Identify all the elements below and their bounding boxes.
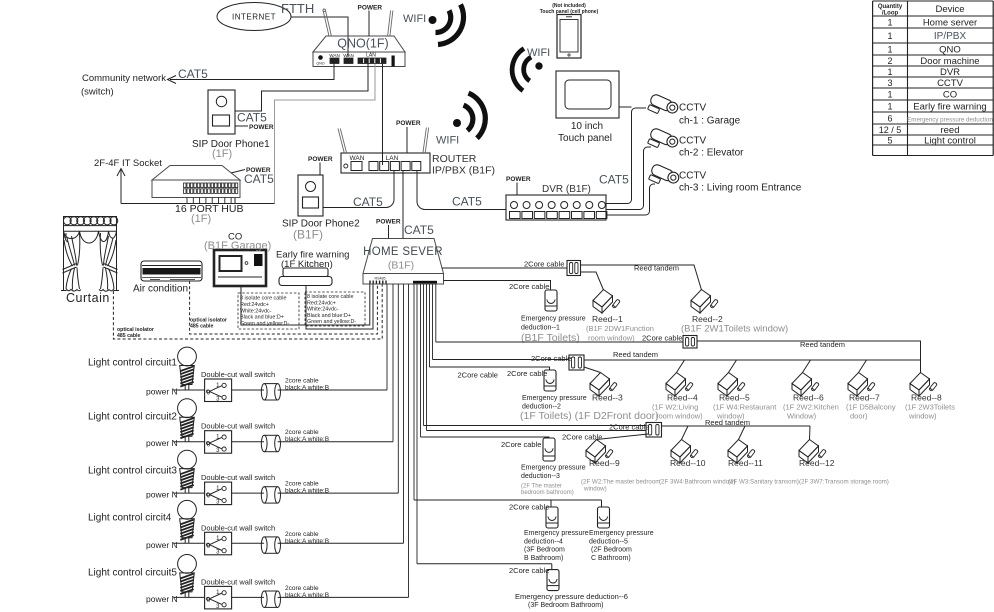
svg-text:Touch panel: Touch panel [558,133,612,144]
svg-text:2Core cable: 2Core cable [524,260,564,269]
wifi icon router [444,91,497,144]
router IP/PBX (B1F) [341,153,430,173]
svg-text:1: 1 [887,101,892,111]
wire curtain to home server (dashed 485) [113,284,382,339]
reed Reed-5 [718,373,745,397]
svg-text:WAN: WAN [350,155,365,162]
svg-text:2Core cable: 2Core cable [501,440,541,449]
wire power DVR [516,183,518,196]
svg-text:1: 1 [887,67,892,77]
svg-text:Green and yellow:D-: Green and yellow:D- [307,319,356,325]
svg-text:485 cable: 485 cable [190,324,213,330]
wire reed tandem row B upper [697,341,921,360]
wire connector A to Reed-1 [581,272,604,290]
svg-text:6: 6 [887,113,892,123]
svg-text:IP/PBX: IP/PBX [934,31,967,42]
lamp L5 [178,555,197,574]
svg-text:IP/PBX (B1F): IP/PBX (B1F) [432,165,495,177]
lamp L4 [178,500,197,519]
svg-text:INTERNET: INTERNET [232,13,276,22]
wire power phone1 [235,125,248,127]
wire power to switch (circuit 1) [174,389,205,391]
svg-text:Light control circit4: Light control circit4 [88,513,172,524]
wire IT socket arrow [120,170,122,204]
svg-text:ch-1 : Garage: ch-1 : Garage [679,116,741,127]
svg-text:POWER: POWER [506,176,531,183]
wire server to EPD-6 [417,563,552,565]
svg-text:Reed tandem: Reed tandem [800,340,845,349]
svg-text:5: 5 [887,135,892,145]
svg-text:Reed--12: Reed--12 [799,458,835,468]
hub port wires [186,198,188,204]
svg-text:CCTV: CCTV [679,136,707,147]
SIP Door Phone1 [208,90,235,134]
svg-text:Light control circuit3: Light control circuit3 [88,466,177,477]
svg-text:WAN: WAN [343,53,354,58]
svg-text:Red:24vdc+: Red:24vdc+ [240,302,269,308]
reed Reed-3 [590,373,617,397]
svg-text:Reed--6: Reed--6 [793,393,824,403]
svg-text:Door machine: Door machine [920,56,979,67]
wifi icon QNO [429,5,464,45]
svg-text:Reed--10: Reed--10 [670,458,706,468]
svg-text:(2F W2:The master bedroom: (2F W2:The master bedroom [581,479,660,486]
camera ch-2 [647,127,680,154]
server bus columns [386,284,388,390]
note 8 isolate core cable (fire) [305,292,365,326]
svg-text:B Bathroom): B Bathroom) [524,555,563,562]
wire connector B2 to Reed-3 [584,367,601,373]
svg-text:Emergency pressure: Emergency pressure [521,465,586,472]
lamp L3 [178,450,197,469]
svg-text:Emergency pressure deduction: Emergency pressure deduction [907,116,993,123]
router antenna right [423,128,427,154]
wire drop Reed-10 [682,426,689,440]
svg-text:Curtain: Curtain [66,291,110,305]
svg-text:WIFI: WIFI [403,13,426,25]
switch SW1 [205,379,232,402]
svg-text:Reed--8: Reed--8 [911,393,942,403]
svg-text:Reed tandem: Reed tandem [613,350,658,359]
svg-text:485 cable: 485 cable [117,333,140,339]
wire power to switch (circuit 4) [174,542,205,544]
svg-text:(2F 3W4:Bathroom window): (2F 3W4:Bathroom window) [659,479,736,486]
cable coil (circuit 5) [264,590,277,592]
svg-text:1: 1 [887,17,892,27]
svg-text:WIFI: WIFI [527,47,550,59]
wire CAT5 phone2 to router [323,170,394,208]
svg-text:RS485: RS485 [375,277,386,281]
wire server to connector B [436,341,683,343]
wire server to EPD-1 [444,281,551,291]
svg-text:WIFI: WIFI [436,135,459,147]
svg-text:White:24vdc-: White:24vdc- [240,308,272,314]
device quantity table [873,1,994,156]
QNO antenna right [388,11,391,37]
svg-text:deduction--1: deduction--1 [521,325,560,332]
wire power server [388,225,390,239]
svg-text:deduction--3: deduction--3 [521,473,560,480]
connector C [646,423,662,438]
wire DVR to camera ch-1 and touch panel [606,108,646,204]
svg-text:Emergency pressure: Emergency pressure [522,395,587,402]
svg-text:2Core cable: 2Core cable [531,354,571,363]
svg-text:Light control circuit2: Light control circuit2 [88,412,177,423]
wire drop Reed-11 [739,426,746,440]
svg-text:C Bathroom): C Bathroom) [591,555,631,562]
lamp L1 [178,347,197,366]
svg-text:Window): Window) [787,412,817,421]
wire switch to cable coil (circuit 4) [232,542,264,544]
svg-text:ch-3 : Living room Entrance: ch-3 : Living room Entrance [679,183,802,194]
svg-text:2core cable: 2core cable [285,429,319,436]
svg-text:LAN: LAN [386,155,399,162]
reed Reed-2 [691,290,718,314]
wire switch to cable coil (circuit 5) [232,596,264,598]
svg-text:Black and blue:D+: Black and blue:D+ [240,315,284,321]
svg-text:Black and blue:D+: Black and blue:D+ [307,313,351,319]
wire DVR to camera ch-2 [606,147,651,210]
svg-text:POWER: POWER [308,156,333,163]
cable coil (circuit 3) [264,486,277,488]
wire drop Reed-12 [809,426,812,440]
QNO antenna left [323,11,329,36]
wire switch to cable coil (circuit 3) [232,492,264,494]
svg-text:CAT5: CAT5 [599,173,629,187]
svg-text:(1F W2:Living: (1F W2:Living [652,403,698,412]
svg-text:(B1F): (B1F) [388,260,414,272]
svg-text:window): window) [908,412,937,421]
internet cloud [217,3,291,31]
reed Reed-11 [728,440,755,464]
reed Reed-9 [586,440,613,464]
wifi icon phone [503,44,549,92]
wire CAT5 QNO WAN to community network with arrow [170,64,334,80]
svg-text:(2F W3:Sanitary transom): (2F W3:Sanitary transom) [728,479,799,486]
CO detector (B1F Garage) [214,250,266,286]
svg-text:Light control circuit1: Light control circuit1 [88,358,177,369]
svg-text:8 isolate core cable: 8 isolate core cable [307,294,353,300]
EPD-6 device [547,570,559,591]
svg-text:Emergency pressure: Emergency pressure [589,530,654,537]
switch SW2 [205,431,232,454]
wire server to EPD-3 [421,437,550,438]
svg-text:2Core cable: 2Core cable [507,369,547,378]
svg-text:(1F Toilets) (1F D2Front door): (1F Toilets) (1F D2Front door) [520,410,659,422]
cable coil (circuit 4) [264,536,277,538]
svg-text:ROUTER: ROUTER [432,153,477,165]
wire coil to server bus (circuit 4) [278,542,404,544]
svg-text:QNO: QNO [939,44,961,55]
svg-text:Green and yellow:D-: Green and yellow:D- [240,321,289,327]
router QNO(1F) [313,36,405,52]
wire reed tandem row B lower [584,359,921,361]
wire FTTH internet to QNO WAN2 [291,17,348,57]
svg-text:CAT5: CAT5 [353,195,383,209]
svg-text:Reed--11: Reed--11 [728,458,763,468]
reed Reed-4 [666,373,693,397]
svg-text:Quantity: Quantity [878,4,903,10]
svg-text:Reed--5: Reed--5 [719,393,750,403]
wire hub bottom bus [121,203,275,205]
air conditioner [141,261,202,281]
wire drop Reed-6 [803,360,811,373]
DVR (B1F) [506,195,606,220]
EPD-3 device [543,438,555,461]
svg-text:CCTV: CCTV [679,103,707,114]
svg-text:CCTV: CCTV [937,78,964,89]
wire power QNO [368,11,370,37]
svg-text:DVR (B1F): DVR (B1F) [542,184,591,195]
svg-text:(switch): (switch) [81,87,114,98]
wire drop Reed-5 [729,360,737,373]
wire reed tandem row A to Reed-2 [581,265,702,290]
wire drop Reed-7 [859,360,867,373]
svg-text:Light control: Light control [924,135,976,146]
svg-text:1: 1 [887,44,892,54]
svg-text:White:24vdc-: White:24vdc- [307,307,339,313]
svg-text:reed: reed [940,125,959,136]
wire power to switch (circuit 3) [174,492,205,494]
EPD-5 device [598,507,610,528]
svg-text:2Core cable: 2Core cable [509,566,549,575]
svg-text:8 isolate core cable: 8 isolate core cable [240,296,286,302]
EPD-2 device [544,370,556,391]
switch SW3 [205,482,232,505]
svg-text:CAT5: CAT5 [237,111,267,125]
svg-text:room window): room window) [588,334,635,343]
svg-text:ch-2 : Elevator: ch-2 : Elevator [679,148,744,159]
svg-text:DVR: DVR [940,67,960,78]
svg-text:Reed--4: Reed--4 [667,393,698,403]
connector B [683,336,697,349]
svg-text:Reed tandem: Reed tandem [705,418,750,427]
svg-text:Light control circuit5: Light control circuit5 [88,568,177,579]
svg-text:(1F D5Balcony: (1F D5Balcony [846,403,896,412]
svg-text:(1F Kitchen): (1F Kitchen) [281,259,333,270]
router antenna left [338,129,344,154]
svg-text:power N: power N [146,540,178,550]
svg-text:(1F 2W3Toilets: (1F 2W3Toilets [905,403,955,412]
svg-text:/Loop: /Loop [882,11,899,17]
svg-text:power N: power N [146,594,178,604]
svg-text:2Core cable: 2Core cable [458,371,498,380]
wire QNO LAN to router LAN [382,64,384,166]
SIP Door Phone2 [298,175,323,216]
switch SW5 [205,586,232,609]
wire coil to server bus (circuit 2) [278,441,393,443]
svg-text:Double-cut wall switch: Double-cut wall switch [201,370,275,379]
early fire warning device [283,268,328,277]
svg-text:room window): room window) [656,412,703,421]
wire switch to cable coil (circuit 2) [232,441,264,443]
svg-text:10 inch: 10 inch [571,121,603,132]
svg-text:3: 3 [887,78,892,88]
svg-text:2Core cable: 2Core cable [609,423,649,432]
wire drop Reed-4 [677,360,685,373]
svg-text:Reed--1: Reed--1 [592,314,623,324]
svg-text:deduction--5: deduction--5 [589,539,628,546]
16 port hub [152,166,240,181]
svg-text:2core cable: 2core cable [285,481,319,488]
svg-text:Red:24vdc+: Red:24vdc+ [307,300,336,306]
connector A [567,261,581,276]
wire server to EPD-4 and EPD-5 [414,499,602,501]
wire fire warning to home server [306,284,373,329]
svg-text:power N: power N [146,438,178,448]
lamp L2 [178,399,197,418]
svg-text:window): window) [583,486,607,493]
camera ch-1 [647,93,680,120]
svg-text:(3F Bedroom Bathroom): (3F Bedroom Bathroom) [528,602,603,609]
svg-text:(B1F Garage): (B1F Garage) [204,240,271,252]
cable coil (circuit 1) [264,383,277,385]
router ports [344,164,348,168]
wire power to switch (circuit 5) [174,596,205,598]
wire server to EPD-2 [430,367,550,370]
svg-text:2F-4F IT Socket: 2F-4F IT Socket [94,158,162,169]
svg-text:FTTH: FTTH [281,1,314,16]
svg-text:Double-cut wall switch: Double-cut wall switch [201,473,275,482]
svg-text:Double-cut wall switch: Double-cut wall switch [201,577,275,586]
QNO ports [318,55,323,60]
svg-text:Double-cut wall switch: Double-cut wall switch [201,523,275,532]
EPD-1 device [545,290,557,311]
svg-text:CAT5: CAT5 [244,172,274,186]
svg-text:Emergency pressure deduction--: Emergency pressure deduction--6 [515,592,628,601]
svg-text:CO: CO [943,89,957,100]
switch SW4 [205,532,232,555]
svg-text:POWER: POWER [249,124,274,131]
svg-text:QNO(1F): QNO(1F) [337,37,388,51]
svg-text:12 / 5: 12 / 5 [879,125,902,135]
wire coil to server bus (circuit 5) [278,596,409,598]
svg-text:Emergency pressure: Emergency pressure [521,316,586,323]
wire connector C to Reed-9 [597,434,649,440]
svg-text:bedroom bathroom): bedroom bathroom) [521,490,574,496]
reed Reed-12 [799,440,826,464]
svg-text:(2F 3W7:Transom storage room): (2F 3W7:Transom storage room) [799,479,889,486]
reed Reed-7 [848,373,875,397]
wire power phone2 [319,163,321,176]
svg-text:CAT5: CAT5 [178,67,208,81]
reed Reed-8 [910,373,937,397]
svg-text:(2F The master: (2F The master [521,484,562,490]
svg-text:2Core cable: 2Core cable [509,282,549,291]
wire CAT5 phone1 to QNO LAN [235,64,368,112]
home server (B1F) [363,239,444,274]
svg-text:deduction--4: deduction--4 [524,539,563,546]
svg-text:POWER: POWER [396,120,421,127]
EPD-4 device [546,507,558,528]
wire power router [406,127,408,153]
reed Reed-10 [671,440,698,464]
svg-text:Early fire warning: Early fire warning [913,101,986,112]
connector B2 [569,355,584,370]
svg-text:Community network: Community network [82,73,166,84]
wire coil to server bus (circuit 1) [278,389,387,391]
svg-text:(3F Bedroom: (3F Bedroom [524,547,565,554]
wire aircon to home server (dashed 485) [190,281,378,334]
svg-text:CCTV: CCTV [679,171,707,182]
svg-text:2core cable: 2core cable [285,585,319,592]
wire server to connector B2 [433,359,570,361]
svg-text:(B1F): (B1F) [293,228,323,242]
svg-text:2core cable: 2core cable [285,378,319,385]
wire drop Reed-8 [920,360,922,373]
svg-text:2core cable: 2core cable [285,531,319,538]
wire power to switch (circuit 2) [174,441,205,443]
svg-text:POWER: POWER [376,219,401,226]
svg-text:LAN: LAN [366,53,376,59]
svg-text:Home server: Home server [923,17,977,28]
10 inch touch panel [556,71,619,118]
svg-text:(1F 2W2:Kitchen: (1F 2W2:Kitchen [783,403,839,412]
svg-text:(B1F 2W1Toilets window): (B1F 2W1Toilets window) [681,324,788,335]
svg-text:HOME SEVER: HOME SEVER [363,246,443,258]
svg-text:Reed--7: Reed--7 [849,393,880,403]
svg-text:CAT5: CAT5 [452,195,482,209]
wire CAT5 router to DVR [417,170,506,210]
wire server to connector A [442,267,568,269]
svg-text:(1F W4:Restaurant: (1F W4:Restaurant [713,403,777,412]
cable coil (circuit 2) [264,434,277,436]
reed Reed-1 [593,290,620,314]
svg-text:(2F Bedroom: (2F Bedroom [591,547,632,554]
wire switch to cable coil (circuit 1) [232,389,264,391]
svg-text:Air condition: Air condition [133,284,188,295]
svg-text:2: 2 [887,56,892,66]
svg-text:WAN: WAN [329,53,340,58]
wire coil to server bus (circuit 3) [278,492,399,494]
svg-text:Reed tandem: Reed tandem [634,264,679,273]
svg-text:(1F): (1F) [212,148,232,160]
svg-text:Reed--9: Reed--9 [589,458,620,468]
curtain [61,216,119,291]
wire CAT5 QNO LAN to 16 port hub (grey) [275,64,376,204]
svg-text:QNO: QNO [316,62,324,66]
svg-text:1: 1 [887,31,892,41]
wire CO to home server [241,284,370,325]
wire reed tandem row C [662,425,811,427]
note 8 isolate core cable (CO) [238,293,299,329]
svg-text:Reed--3: Reed--3 [592,393,623,403]
svg-text:(B1F 2DW1Function: (B1F 2DW1Function [586,324,654,333]
svg-text:Reed--2: Reed--2 [692,314,723,324]
svg-text:2Core cable: 2Core cable [509,503,549,512]
svg-text:2Core cable: 2Core cable [642,334,682,343]
svg-text:door): door) [850,412,868,421]
svg-text:Emergency pressure: Emergency pressure [524,530,589,537]
wire CAT5 router to home server [402,170,404,239]
svg-text:power N: power N [146,490,178,500]
svg-text:Device: Device [935,4,964,15]
wire DVR to camera ch-3 [606,184,655,215]
svg-text:CAT5: CAT5 [404,223,434,237]
svg-text:(1F): (1F) [191,213,211,225]
svg-text:Double-cut wall switch: Double-cut wall switch [201,422,275,431]
reed Reed-6 [792,373,819,397]
svg-text:POWER: POWER [358,5,383,12]
svg-text:power N: power N [146,387,178,397]
camera ch-3 [648,163,681,190]
wire server to connector C (pair) [424,425,647,427]
svg-text:1: 1 [887,89,892,99]
